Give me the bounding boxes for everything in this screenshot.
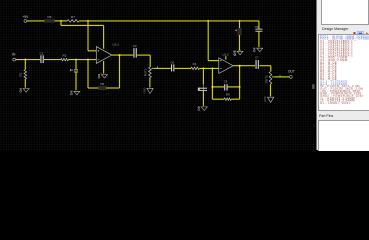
capacitor C7 xyxy=(255,60,257,69)
svg-text:C1: C1 xyxy=(40,52,44,56)
capacitor C5 (polarized) xyxy=(202,84,204,91)
svg-text:R5: R5 xyxy=(100,82,104,86)
svg-text:R7: R7 xyxy=(71,15,75,19)
wire xyxy=(274,76,289,78)
wire xyxy=(27,20,45,22)
svg-text:C3: C3 xyxy=(133,44,137,48)
wire xyxy=(212,86,224,88)
svg-text:R1: R1 xyxy=(19,72,23,76)
wire xyxy=(259,65,270,67)
wire xyxy=(75,72,77,90)
svg-text:C6: C6 xyxy=(170,61,174,65)
svg-text:OUT: OUT xyxy=(288,70,295,74)
op-amp U1.1 xyxy=(96,47,112,64)
wire xyxy=(44,59,61,61)
ground (C5) xyxy=(198,106,208,110)
wire xyxy=(239,21,241,28)
wire xyxy=(16,59,41,61)
wire xyxy=(75,60,77,69)
wire xyxy=(175,67,191,69)
ground (POT2) xyxy=(263,96,274,102)
wire xyxy=(258,31,260,47)
capacitor C1 xyxy=(40,55,42,63)
wire xyxy=(239,66,241,100)
capacitor C3 xyxy=(133,48,135,58)
scrollbar thumb xyxy=(312,84,314,89)
wire xyxy=(233,65,255,67)
ground (R1) xyxy=(20,88,30,92)
wire xyxy=(270,84,272,96)
junction xyxy=(207,20,209,22)
wire xyxy=(202,68,204,84)
resistor R6 xyxy=(45,20,55,23)
junction xyxy=(119,54,121,56)
wire xyxy=(119,55,121,88)
resistor R8 xyxy=(224,98,231,101)
junction xyxy=(87,20,89,22)
wire xyxy=(60,21,62,26)
wire xyxy=(208,60,219,62)
ground (POT1) xyxy=(142,87,153,93)
resistor R4 xyxy=(191,67,199,70)
svg-text:R8: R8 xyxy=(226,92,230,96)
wire xyxy=(239,35,241,50)
wire xyxy=(270,66,272,72)
wire xyxy=(112,54,133,56)
port IN xyxy=(13,58,16,61)
wire xyxy=(87,60,89,88)
wire xyxy=(227,86,239,88)
svg-text:C7: C7 xyxy=(255,56,259,60)
svg-text:R2: R2 xyxy=(63,53,67,57)
wire xyxy=(199,67,218,69)
resistor R9 (box, vertical) xyxy=(238,28,241,35)
wire xyxy=(137,54,150,56)
svg-text:R4: R4 xyxy=(193,62,197,66)
wire xyxy=(68,59,96,61)
junction xyxy=(202,67,204,69)
potentiometer POT2 xyxy=(269,72,272,85)
svg-text:C8: C8 xyxy=(255,25,259,29)
capacitor C9 xyxy=(224,84,226,90)
junction xyxy=(75,59,77,61)
junction xyxy=(87,59,89,61)
junction xyxy=(239,20,241,22)
svg-text:+9V: +9V xyxy=(22,15,29,19)
wire xyxy=(149,78,151,88)
wire xyxy=(231,98,239,100)
wire xyxy=(103,25,105,48)
ground (divider) xyxy=(233,51,243,56)
svg-text:C9: C9 xyxy=(224,80,228,84)
wire xyxy=(24,60,26,70)
wire xyxy=(154,67,171,69)
junction xyxy=(211,67,213,69)
svg-text:U1.1: U1.1 xyxy=(113,43,120,47)
junction xyxy=(24,59,26,61)
wire xyxy=(212,98,224,100)
wire xyxy=(87,21,89,51)
junction xyxy=(211,86,213,88)
wire xyxy=(207,21,209,61)
svg-text:U1.2: U1.2 xyxy=(222,52,229,56)
capacitor C6 xyxy=(171,64,173,71)
svg-text:POT2: POT2 xyxy=(264,75,268,83)
resistor R7 xyxy=(67,20,79,23)
junction xyxy=(60,20,62,22)
power port +9V xyxy=(24,20,27,23)
wire xyxy=(211,68,213,99)
capacitor C8 xyxy=(255,28,262,30)
wire xyxy=(202,91,204,106)
ground (rail cap) xyxy=(253,48,263,52)
wire xyxy=(103,61,105,74)
junction xyxy=(239,65,241,67)
resistor R2 xyxy=(61,58,69,61)
resistor R5 (box) xyxy=(98,86,106,89)
wire xyxy=(225,56,227,59)
op-amp U1.2 xyxy=(219,58,233,74)
svg-text:POT1: POT1 xyxy=(144,68,148,76)
wire xyxy=(258,21,260,29)
potentiometer POT1 xyxy=(149,67,152,78)
wire xyxy=(149,55,151,67)
wire xyxy=(88,87,98,89)
wire xyxy=(106,87,119,89)
wire xyxy=(79,20,259,22)
wire xyxy=(55,20,68,22)
junction xyxy=(239,86,241,88)
ground (C2) xyxy=(70,91,80,95)
wire xyxy=(88,50,96,52)
svg-text:R6: R6 xyxy=(48,15,52,19)
wire xyxy=(61,24,104,26)
wire xyxy=(24,79,26,88)
port OUT xyxy=(289,76,292,79)
